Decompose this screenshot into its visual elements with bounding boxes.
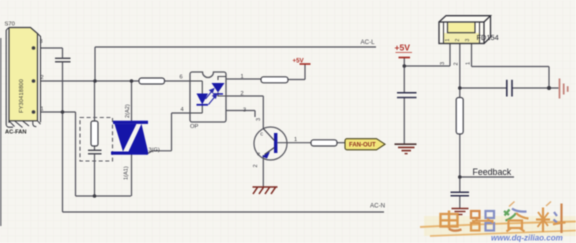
- svg-text:FY30418800: FY30418800: [19, 79, 25, 113]
- svg-text:6: 6: [180, 75, 183, 81]
- svg-text:3: 3: [243, 108, 246, 114]
- svg-text:3(G): 3(G): [149, 148, 160, 154]
- svg-text:+5V: +5V: [395, 43, 411, 53]
- svg-text:2: 2: [41, 75, 44, 81]
- svg-text:1: 1: [241, 74, 244, 80]
- svg-text:www.dq-ziliao.com: www.dq-ziliao.com: [491, 234, 563, 243]
- svg-text:1: 1: [41, 107, 44, 113]
- svg-text:AC-FAN: AC-FAN: [5, 130, 26, 136]
- svg-text:2: 2: [454, 62, 460, 65]
- svg-text:c: c: [260, 132, 263, 138]
- svg-text:3: 3: [40, 39, 43, 45]
- svg-text:Feedback: Feedback: [473, 167, 512, 177]
- svg-text:1(A1): 1(A1): [124, 166, 130, 180]
- svg-text:2: 2: [241, 91, 244, 97]
- svg-text:3: 3: [465, 39, 471, 42]
- svg-text:2(A2): 2(A2): [125, 104, 131, 118]
- svg-text:1: 1: [445, 39, 451, 42]
- svg-text:S70: S70: [5, 22, 15, 28]
- svg-text:AC-L: AC-L: [361, 39, 376, 46]
- svg-text:3: 3: [440, 62, 446, 65]
- svg-text:FD154: FD154: [477, 33, 499, 42]
- svg-text:AC-N: AC-N: [370, 203, 385, 210]
- svg-text:2: 2: [253, 164, 259, 167]
- svg-text:3: 3: [256, 118, 262, 121]
- svg-text:e: e: [257, 152, 260, 158]
- svg-text:2: 2: [455, 39, 461, 42]
- svg-text:OP: OP: [190, 124, 199, 130]
- svg-text:4: 4: [181, 107, 184, 113]
- svg-text:1: 1: [294, 137, 297, 143]
- svg-text:+5V: +5V: [293, 57, 305, 64]
- svg-text:FAN-OUT: FAN-OUT: [349, 143, 376, 149]
- svg-text:1: 1: [466, 62, 472, 65]
